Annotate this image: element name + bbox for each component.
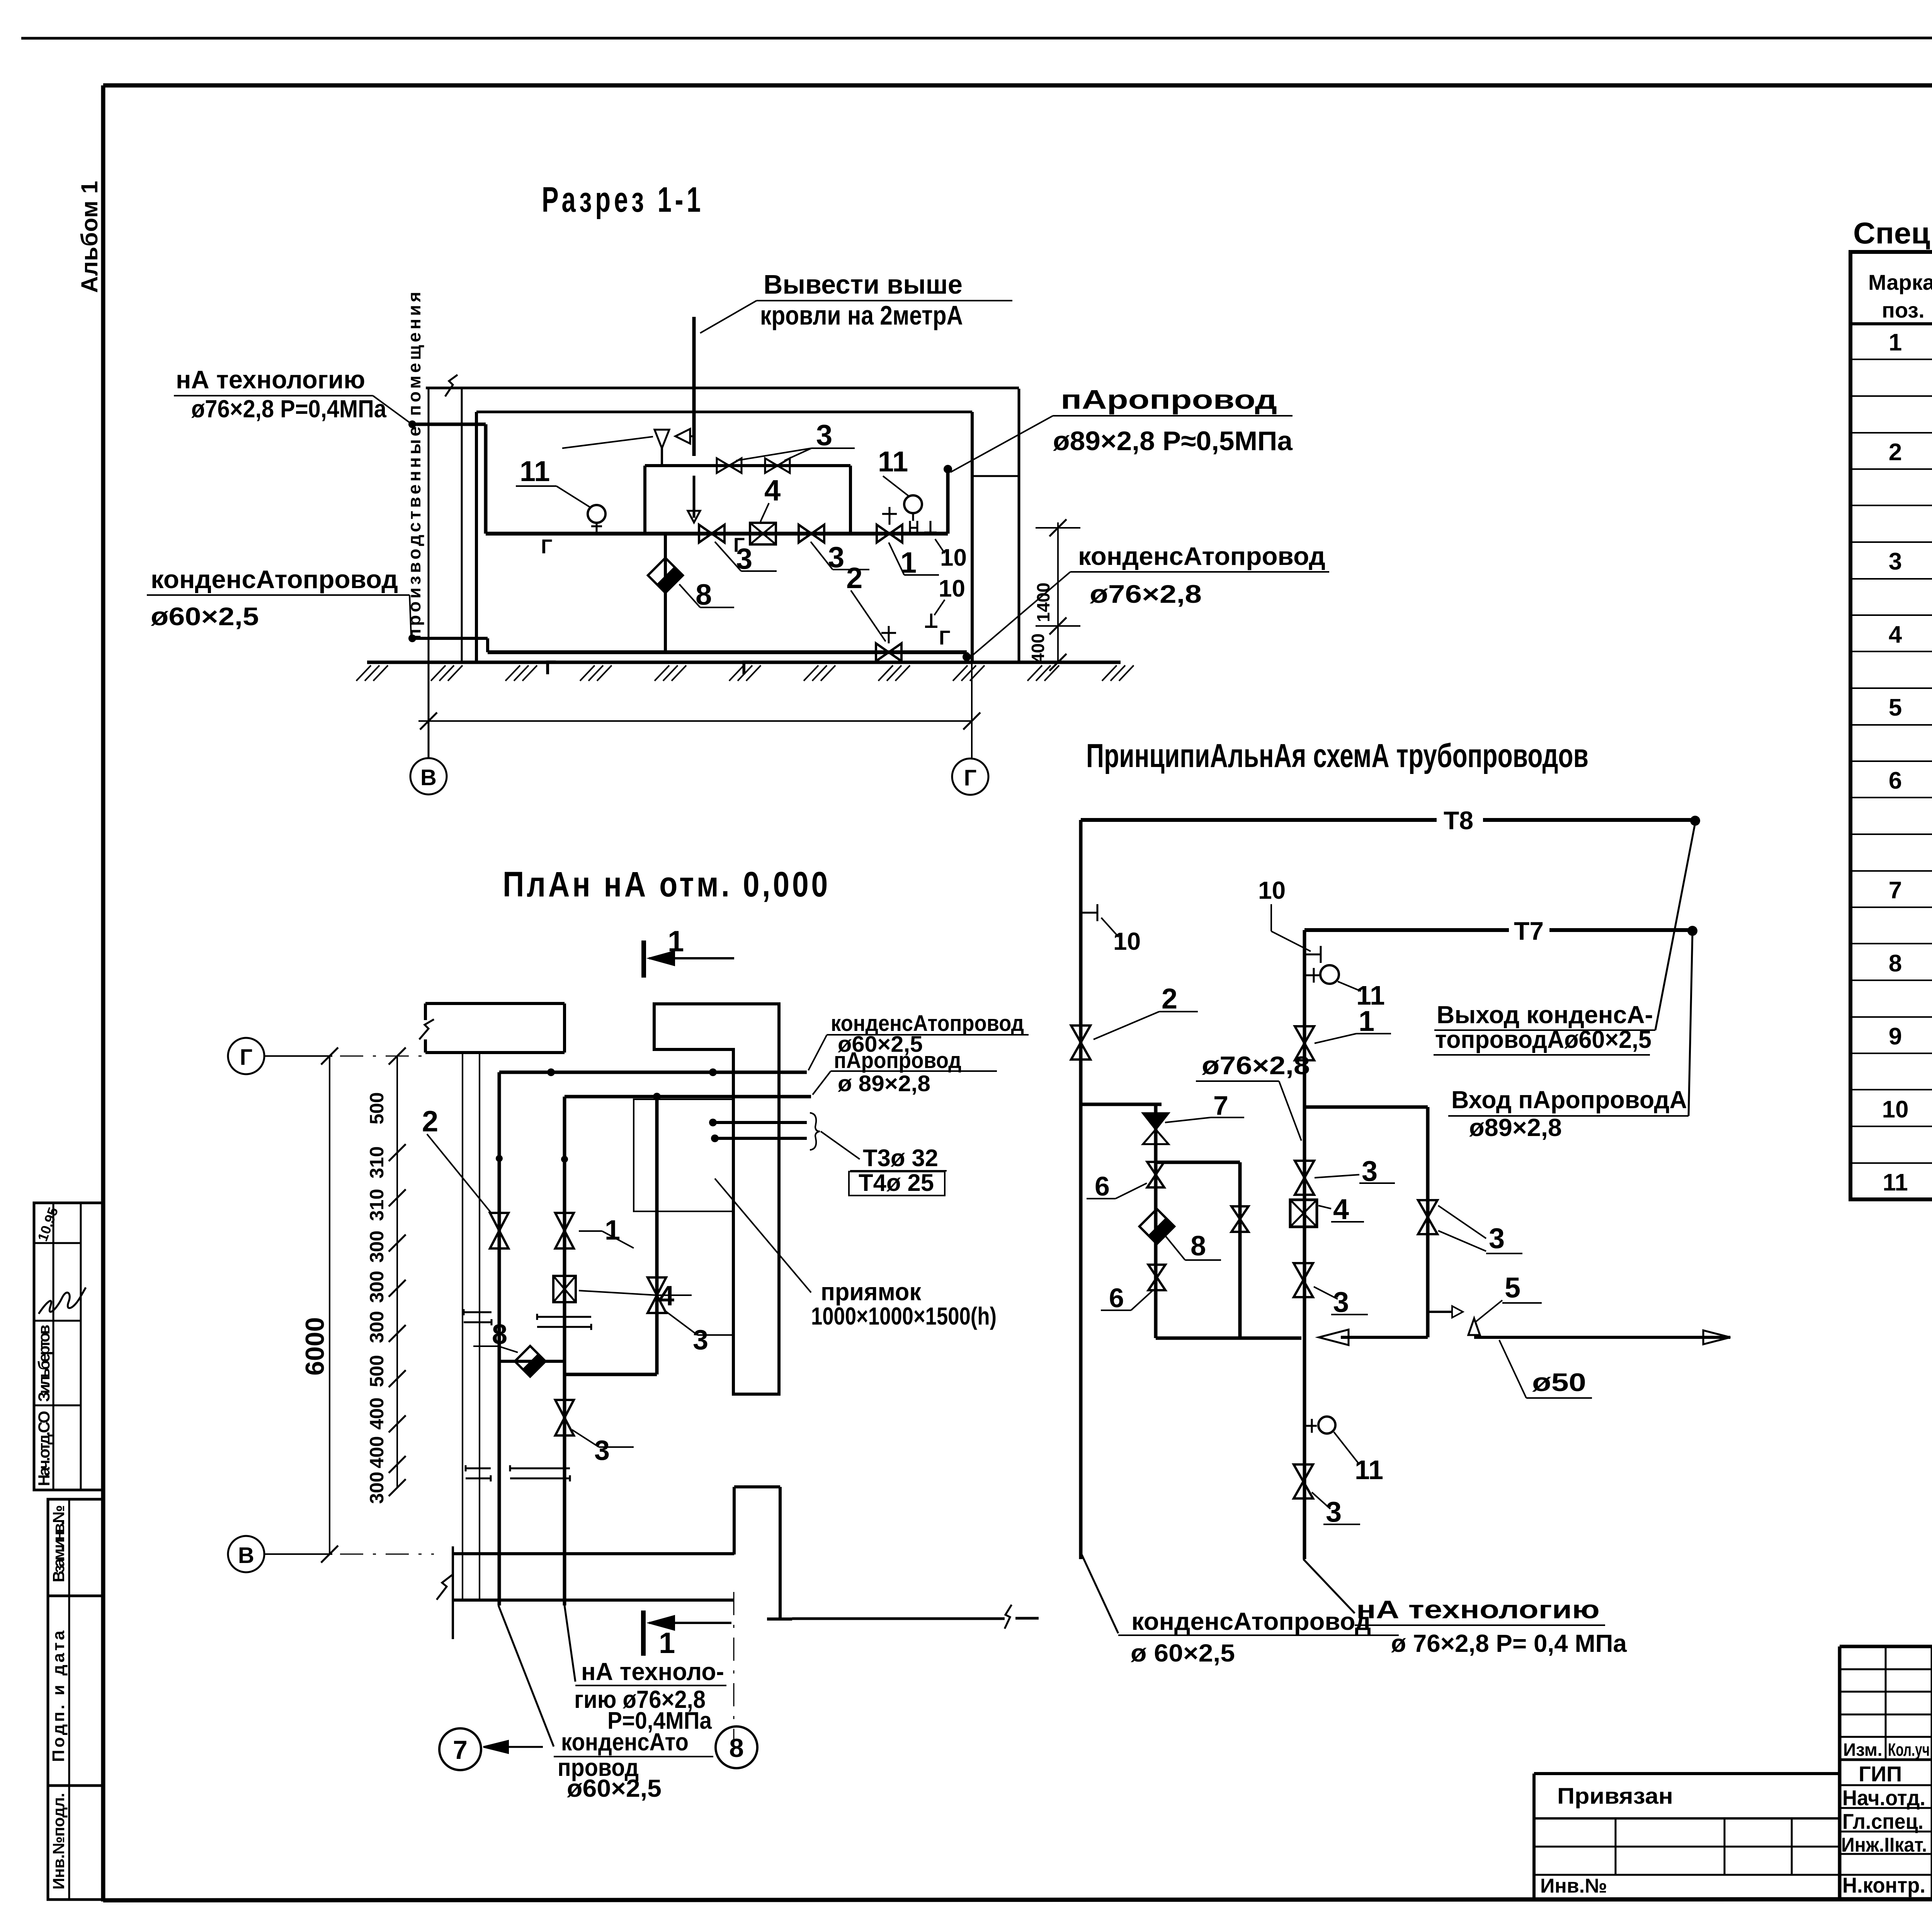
- valve 3 schema upper: [1295, 1161, 1314, 1178]
- lower wall band on plan: [453, 1552, 734, 1555]
- callout circle 7: [439, 1728, 481, 1770]
- spec table outer box: [1850, 252, 1932, 1199]
- pipe: на технологию exit stub: [412, 423, 486, 426]
- regulator 4 on plan: [553, 1276, 576, 1302]
- svg-text:4: 4: [764, 474, 781, 507]
- svg-text:нА технологию: нА технологию: [1356, 1595, 1600, 1624]
- pipe: condensate exit stub: [412, 637, 488, 640]
- section mark 1 bottom: [641, 1611, 646, 1656]
- svg-text:Взам.инв.№: Взам.инв.№: [49, 1505, 68, 1582]
- vent pipe to roof: [692, 317, 696, 456]
- svg-text:пАропровод: пАропровод: [1061, 384, 1277, 415]
- gauge 11 left (manometer): [588, 505, 605, 523]
- overall dimension line 6000: [329, 1056, 330, 1554]
- Т3 stub with dot: [713, 1121, 807, 1124]
- valve 2 on condensate riser plan: [490, 1213, 509, 1231]
- svg-text:приямок: приямок: [821, 1278, 922, 1306]
- svg-text:Т4ø 25: Т4ø 25: [859, 1170, 934, 1196]
- svg-text:ø50: ø50: [1532, 1368, 1586, 1396]
- svg-text:8: 8: [1190, 1231, 1206, 1262]
- svg-text:Зильбертов: Зильбертов: [35, 1325, 53, 1402]
- pipe: condensate drop to floor: [965, 652, 968, 657]
- roof slab: [426, 387, 1019, 389]
- Привязан box: [1534, 1772, 1840, 1775]
- svg-text:1: 1: [605, 1215, 620, 1246]
- section cut dash-dot line: [733, 1592, 735, 1750]
- svg-text:8: 8: [729, 1733, 744, 1763]
- valve 1 with handle: [877, 525, 889, 543]
- svg-text:400: 400: [366, 1398, 388, 1430]
- valve 3a on steam riser plan: [555, 1400, 574, 1418]
- section mark 1 top: [641, 940, 646, 978]
- svg-text:1: 1: [1359, 1005, 1374, 1037]
- branch to trap line: [1081, 1103, 1162, 1106]
- gauge cock Н symbol: [909, 521, 911, 534]
- condensate trap branch on plan: [499, 1360, 565, 1363]
- pipe Т8 condensate header: [1081, 818, 1437, 822]
- regulator 4 schema: [1290, 1200, 1317, 1227]
- axis circle В plan: [228, 1536, 264, 1572]
- valve 1 on steam riser plan: [555, 1213, 574, 1231]
- svg-text:1: 1: [659, 1627, 675, 1660]
- axis line В vertical: [428, 387, 430, 758]
- label приямок with leader: [715, 1179, 811, 1293]
- svg-text:3: 3: [1326, 1496, 1342, 1528]
- pipes Т3 Т4 risers (thin pair): [462, 1053, 463, 1600]
- trap collector line: [1156, 1337, 1301, 1340]
- axis line Г vertical: [971, 662, 973, 758]
- frame border bottom: [103, 1899, 1932, 1900]
- svg-text:500: 500: [366, 1092, 388, 1124]
- leader Вход to Т7 dot: [1689, 933, 1692, 1116]
- svg-text:Г: Г: [545, 656, 556, 679]
- svg-text:8: 8: [1889, 950, 1902, 977]
- svg-text:6: 6: [1889, 767, 1902, 794]
- leader to на технологию schema: [1303, 1559, 1355, 1613]
- valve 1 schema: [1295, 1026, 1314, 1043]
- upper-left wall on plan: [425, 1002, 565, 1005]
- svg-text:2: 2: [422, 1105, 438, 1138]
- valve 3 on steam pipe right: [799, 525, 811, 543]
- support symbol под трубой: [930, 614, 932, 627]
- svg-text:11: 11: [520, 455, 550, 487]
- svg-text:300: 300: [366, 1311, 388, 1343]
- svg-text:4: 4: [1333, 1193, 1349, 1225]
- svg-text:Спецификация индивидуального: Спецификация индивидуального теплового п…: [1853, 216, 1932, 250]
- svg-text:7: 7: [1889, 877, 1902, 904]
- svg-text:ПлАн нА отм. 0,000: ПлАн нА отм. 0,000: [503, 865, 830, 904]
- svg-text:1000×1000×1500(h): 1000×1000×1500(h): [811, 1302, 997, 1330]
- steam bypass schema: [1304, 1105, 1428, 1109]
- svg-text:Т3ø 32: Т3ø 32: [863, 1145, 938, 1172]
- svg-text:Нач.отд.: Нач.отд.: [1842, 1786, 1925, 1810]
- dimension chain line: [396, 1056, 398, 1488]
- steam main vertical: [1303, 930, 1306, 1559]
- big left arrow line: [1341, 1336, 1428, 1339]
- support symbol 10 on steam: [1304, 954, 1321, 956]
- svg-text:3: 3: [816, 419, 832, 452]
- gauge 11 schema upper: [1304, 975, 1319, 976]
- svg-text:310: 310: [366, 1189, 388, 1221]
- svg-text:нА техноло-: нА техноло-: [581, 1658, 724, 1685]
- safety valve leader line: [562, 437, 653, 448]
- svg-text:3: 3: [693, 1325, 708, 1355]
- svg-text:Выход конденсА-: Выход конденсА-: [1437, 1001, 1653, 1029]
- svg-text:3: 3: [594, 1435, 610, 1466]
- svg-text:нА технологию: нА технологию: [176, 365, 365, 394]
- axis dimension line В-Г: [418, 720, 972, 722]
- wall line right of door: [792, 1617, 1005, 1620]
- leader to конденсатопровод schema: [1081, 1553, 1118, 1633]
- gauge 11 right (manometer): [904, 495, 922, 513]
- axis circle Г: [952, 759, 988, 795]
- svg-text:11: 11: [1355, 1455, 1383, 1485]
- svg-text:Вывести выше: Вывести выше: [764, 269, 963, 299]
- svg-text:5: 5: [1505, 1272, 1520, 1304]
- svg-text:10: 10: [1258, 876, 1286, 904]
- svg-text:конденсАтопровод: конденсАтопровод: [1078, 542, 1325, 570]
- svg-text:11: 11: [878, 446, 908, 478]
- svg-text:11: 11: [1883, 1169, 1908, 1196]
- svg-text:Г: Г: [964, 765, 977, 791]
- svg-text:6: 6: [1109, 1283, 1124, 1313]
- svg-text:ø 89×2,8: ø 89×2,8: [838, 1071, 930, 1096]
- left stamp upper box (Нач.отд.СО Зильбертов): [34, 1203, 103, 1490]
- leader to condensate stub: [410, 595, 411, 636]
- svg-text:ø89×2,8 Р≈0,5МПа: ø89×2,8 Р≈0,5МПа: [1053, 426, 1293, 456]
- svg-text:2: 2: [846, 562, 862, 595]
- svg-text:ø60×2,5: ø60×2,5: [151, 602, 259, 631]
- left stamp rotated signature: [39, 1287, 86, 1314]
- svg-text:2: 2: [1162, 983, 1177, 1015]
- condensate main vertical: [1079, 820, 1083, 1559]
- svg-text:ø 76×2,8 Р= 0,4 МПа: ø 76×2,8 Р= 0,4 МПа: [1391, 1629, 1627, 1657]
- leader конденсатопровод to floor dot: [971, 572, 1070, 657]
- svg-text:300: 300: [366, 1472, 388, 1504]
- svg-text:Г: Г: [541, 536, 552, 558]
- svg-text:4: 4: [1889, 621, 1902, 648]
- door jamb column on plan: [734, 1485, 780, 1488]
- svg-text:3: 3: [1889, 548, 1902, 575]
- spec table header row line: [1850, 322, 1932, 325]
- leader паропровод to steam entry dot: [951, 416, 1053, 472]
- discharge arrow right ø50: [1474, 1336, 1730, 1339]
- valve 3c schema: [1294, 1263, 1313, 1280]
- branch to bypass on plan: [565, 1373, 657, 1376]
- leader Выход to Т8 dot: [1655, 823, 1695, 1030]
- steam main on plan: [565, 1095, 811, 1099]
- axis circle В: [410, 758, 447, 794]
- callout circle 8: [716, 1726, 757, 1768]
- sheet top edge line: [21, 38, 1932, 38]
- ground line with hatching: [367, 661, 1121, 664]
- svg-text:Инж.ӀӀкат.: Инж.ӀӀкат.: [1841, 1834, 1927, 1856]
- svg-text:Т8: Т8: [1444, 806, 1473, 835]
- svg-text:ПринципиАльнАя схемА трубоп: ПринципиАльнАя схемА трубопроводов: [1086, 737, 1588, 774]
- valve 3 on steam pipe: [699, 525, 712, 543]
- check valve 7 schema: [1154, 1104, 1158, 1338]
- svg-text:Инв.№: Инв.№: [1540, 1875, 1607, 1897]
- Т4 stub with dot: [715, 1137, 807, 1140]
- trap 8 schema diamond: [1139, 1209, 1175, 1244]
- valve 3b schema on bypass: [1418, 1200, 1437, 1217]
- svg-text:8: 8: [696, 578, 712, 611]
- brace and labels Т3ø32 Т4ø25: [810, 1113, 820, 1150]
- air vent arrow before valve 1: [693, 476, 696, 518]
- valve 6b schema: [1231, 1206, 1248, 1219]
- valve 2 schema: [1071, 1026, 1090, 1043]
- support symbol 10 on condensate: [1081, 912, 1097, 914]
- svg-text:2: 2: [1889, 439, 1902, 466]
- svg-text:Гл.спец.: Гл.спец.: [1842, 1809, 1923, 1833]
- svg-text:10: 10: [939, 575, 965, 602]
- safety valve on bypass: [661, 448, 663, 466]
- svg-text:500: 500: [366, 1355, 388, 1387]
- svg-text:Г: Г: [939, 627, 950, 649]
- left stamp lower box (Взам.инв.№ / Подп. и дата / Инв.№подл.): [48, 1499, 103, 1900]
- svg-text:Г: Г: [240, 1045, 253, 1070]
- svg-text:ø76×2,8: ø76×2,8: [1090, 580, 1202, 608]
- frame border left: [101, 85, 105, 1901]
- svg-text:7: 7: [453, 1735, 468, 1765]
- приямок pit outline: [634, 1099, 733, 1211]
- svg-text:6000: 6000: [300, 1317, 330, 1376]
- svg-text:400: 400: [1028, 633, 1048, 663]
- svg-text:310: 310: [366, 1146, 388, 1179]
- svg-text:Инв.№подл.: Инв.№подл.: [49, 1793, 68, 1889]
- pipe: left steam riser: [484, 424, 488, 534]
- svg-text:1400: 1400: [1033, 583, 1053, 622]
- bypass riser right: [849, 466, 852, 534]
- safety valve 5 branch: [1428, 1311, 1452, 1313]
- svg-text:конденсАто: конденсАто: [561, 1728, 689, 1756]
- svg-text:300: 300: [366, 1231, 388, 1263]
- valve 3 on bypass (right): [765, 458, 777, 473]
- svg-text:Кол.уч: Кол.уч: [1888, 1740, 1930, 1760]
- svg-text:поз.: поз.: [1882, 298, 1925, 322]
- pipe Т7 steam header: [1304, 928, 1509, 932]
- svg-text:Т7: Т7: [1514, 917, 1544, 945]
- svg-text:ГИП: ГИП: [1859, 1762, 1902, 1786]
- svg-text:Г: Г: [741, 656, 752, 679]
- svg-text:пАропровод: пАропровод: [834, 1048, 961, 1073]
- valve 6 lower schema: [1148, 1265, 1165, 1277]
- pipe: upper steam pipe Г: [486, 532, 948, 536]
- bypass line: [645, 464, 850, 467]
- valve 3 on bypass (left): [717, 458, 729, 473]
- svg-text:1: 1: [1889, 329, 1902, 356]
- second trap branch: [1156, 1161, 1240, 1164]
- svg-text:Вход пАропроводА: Вход пАропроводА: [1451, 1086, 1687, 1114]
- valve 3b on plan bypass: [648, 1277, 666, 1295]
- thermometer socket symbol: [930, 521, 932, 532]
- svg-text:Изм.: Изм.: [1843, 1740, 1883, 1760]
- pipe: bottom condensate pipe Г: [488, 650, 967, 654]
- svg-text:топроводАø60×2,5: топроводАø60×2,5: [1435, 1026, 1651, 1053]
- dimension line 400/1400 right: [1057, 522, 1059, 662]
- svg-text:ø76×2,8: ø76×2,8: [1202, 1051, 1310, 1080]
- upper-right wall and column on plan: [654, 1004, 779, 1394]
- svg-text:ø89×2,8: ø89×2,8: [1469, 1114, 1562, 1141]
- svg-text:Альбом 1: Альбом 1: [77, 181, 102, 293]
- svg-text:300: 300: [366, 1271, 388, 1303]
- gauge 11 schema lower: [1303, 1425, 1317, 1427]
- right wall of section: [971, 412, 974, 662]
- sleeve symbols 10 on plan: [464, 1311, 492, 1313]
- valve 2 with handle on bottom pipe: [876, 643, 889, 661]
- svg-text:400: 400: [366, 1436, 388, 1468]
- svg-text:10: 10: [1882, 1096, 1909, 1123]
- axis circle Г plan: [228, 1038, 264, 1074]
- svg-text:10: 10: [940, 544, 967, 571]
- steam riser entry with node dot: [946, 469, 950, 534]
- svg-text:10: 10: [1113, 927, 1141, 955]
- condensate main on plan: [499, 1071, 807, 1074]
- svg-text:3: 3: [1362, 1155, 1378, 1187]
- frame border top: [103, 83, 1932, 88]
- leader diagonals to exit labels: [498, 1605, 554, 1747]
- arrow into circle 7: [483, 1746, 543, 1748]
- svg-text:7: 7: [1213, 1090, 1228, 1121]
- svg-text:Привязан: Привязан: [1557, 1784, 1673, 1809]
- svg-text:Н.контр.: Н.контр.: [1842, 1873, 1925, 1897]
- svg-text:В: В: [420, 765, 437, 790]
- svg-text:1: 1: [668, 925, 684, 958]
- title block outer and revision grid: [1840, 1645, 1932, 1648]
- svg-text:конденсАтопровод: конденсАтопровод: [1131, 1607, 1371, 1635]
- svg-text:3: 3: [1489, 1222, 1505, 1254]
- svg-text:ø60×2,5: ø60×2,5: [567, 1774, 662, 1802]
- svg-text:В: В: [238, 1543, 254, 1568]
- svg-text:ø76×2,8 Р=0,4МПа: ø76×2,8 Р=0,4МПа: [191, 395, 386, 423]
- svg-text:6: 6: [1095, 1171, 1110, 1201]
- svg-text:Разрез 1-1: Разрез 1-1: [542, 180, 704, 219]
- svg-text:конденсАтопровод: конденсАтопровод: [151, 565, 398, 594]
- svg-text:кровли на 2метрА: кровли на 2метрА: [760, 300, 963, 330]
- bypass riser left: [643, 466, 646, 534]
- leader на технологию to pipe dot: [373, 396, 410, 423]
- spec table row lines: [1850, 359, 1932, 360]
- valve 3d schema: [1294, 1464, 1313, 1481]
- svg-text:Марка,: Марка,: [1868, 270, 1932, 294]
- pressure regulator 4: [750, 523, 776, 544]
- svg-text:Нач.отд.СО: Нач.отд.СО: [35, 1411, 53, 1486]
- svg-text:3: 3: [1333, 1286, 1349, 1318]
- left wall of section: [461, 388, 463, 662]
- svg-text:9: 9: [1889, 1023, 1902, 1050]
- condensate trap 8 diamond: [664, 534, 667, 652]
- svg-text:5: 5: [1889, 694, 1902, 721]
- svg-text:ø 60×2,5: ø 60×2,5: [1131, 1639, 1235, 1667]
- valve 6 upper schema: [1147, 1162, 1164, 1175]
